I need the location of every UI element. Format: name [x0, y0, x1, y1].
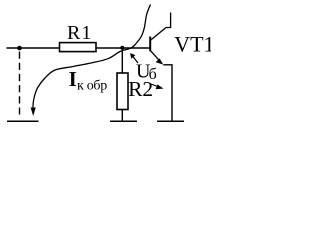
- svg-text:б: б: [149, 66, 157, 83]
- svg-text:R1: R1: [67, 22, 92, 44]
- svg-text:I: I: [69, 67, 77, 91]
- svg-text:к обр: к обр: [77, 78, 107, 93]
- svg-text:VT1: VT1: [174, 32, 211, 57]
